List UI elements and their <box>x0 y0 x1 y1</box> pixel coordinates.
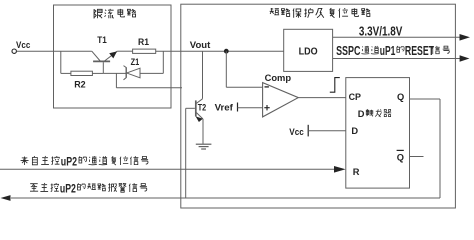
ground symbol (T2 emitter) <box>196 144 212 149</box>
node: Vout junction dot <box>224 49 229 54</box>
svg-text:Q: Q <box>397 92 404 102</box>
wire: to R2 left <box>61 72 71 74</box>
label 至主控uP2的短路报警信号 <box>30 181 147 195</box>
svg-text:uP2: uP2 <box>61 154 77 168</box>
svg-text:SSPC: SSPC <box>336 44 360 58</box>
label: 短路保护及复位电路 title <box>270 8 370 18</box>
transistor T1 collector line with arrow <box>105 51 118 61</box>
label Z1 <box>131 57 140 68</box>
label 3.3V/1.8V <box>359 25 403 39</box>
svg-text:T2: T2 <box>198 102 207 113</box>
wire: Q output <box>410 98 441 100</box>
wire: T2 emitter to ground <box>202 119 204 144</box>
wire: Vout dot down <box>225 51 227 87</box>
terminal Vcc (open circle) <box>12 49 16 53</box>
wire: Q-bar stub <box>410 156 424 158</box>
op-amp comparator U1 (Comp) triangle <box>263 83 299 117</box>
wire: feedback vertical up to rail after R1 <box>162 51 164 73</box>
label Q-bar pin <box>397 150 404 162</box>
label Vref <box>215 103 234 114</box>
label 来自主控uP2的通道复位信号 <box>21 154 149 168</box>
wire: LDO reset output <box>333 58 462 60</box>
svg-text:Vcc: Vcc <box>289 127 304 138</box>
label CP pin <box>349 92 361 102</box>
svg-text:Z1: Z1 <box>131 57 140 68</box>
label Q pin <box>397 92 404 102</box>
label R pin <box>353 167 360 177</box>
svg-text:D: D <box>351 126 358 136</box>
svg-text:Vout: Vout <box>190 40 211 51</box>
wire: lower horizontal out of box (to protection box edge) <box>116 87 182 89</box>
svg-text:D: D <box>358 109 365 119</box>
label SSPC通道uP1的RESET信号 <box>336 44 449 58</box>
svg-text:Vcc: Vcc <box>16 40 30 51</box>
terminal tick: Vcc right <box>307 125 309 137</box>
svg-text:T1: T1 <box>97 35 107 46</box>
wire: alarm signal line (至主控uP2) <box>11 197 440 199</box>
zener Z1 cathode bar with hooks <box>124 66 127 80</box>
wire: T2 base down to alarm/Q line <box>185 108 187 198</box>
transistor T2 collector line <box>196 99 202 104</box>
label Vout <box>190 40 211 51</box>
svg-text:R1: R1 <box>138 37 150 48</box>
svg-text:Q: Q <box>397 152 404 162</box>
wire: Z1 anode to feedback vertical <box>140 72 163 74</box>
svg-text:R: R <box>353 167 360 177</box>
arrowhead: 3.3V/1.8V output <box>460 34 471 41</box>
wire: drop from Vcc rail to R2 <box>60 51 62 73</box>
label LDO <box>299 46 318 57</box>
arrowhead: reset output <box>460 55 470 61</box>
node: drop-down junction on base wire <box>115 73 117 87</box>
wire: T1 base node to Z1 cathode <box>103 72 126 74</box>
box: short-circuit protection & reset circuit (短路保护及复位电路) outline <box>181 4 456 208</box>
label Vcc (left) <box>16 40 30 51</box>
wire: T1 collector to R1 <box>117 50 132 52</box>
svg-text:CP: CP <box>349 92 361 102</box>
comparator + sign <box>264 105 269 110</box>
svg-text:Vref: Vref <box>215 103 234 114</box>
wire: Vcc to D pin <box>308 130 346 132</box>
transistor T1 bar (base bar) <box>93 60 110 62</box>
label Comp <box>265 73 292 84</box>
symbol: rising-edge (clock) waveform mark <box>330 78 340 93</box>
svg-text:R2: R2 <box>74 80 86 91</box>
resistor R1 body <box>133 49 156 53</box>
transistor T1 emitter line <box>92 51 100 61</box>
arrowhead: into R pin <box>334 166 346 173</box>
label D pin <box>351 126 358 136</box>
wire: to comparator - input <box>226 86 262 88</box>
resistor R2 body <box>71 71 93 75</box>
label: 限流电路 (current-limiting circuit) title <box>94 9 136 19</box>
D flip-flop U2 box <box>346 78 410 189</box>
transistor T1 base lead down <box>102 62 104 73</box>
box: current-limiting circuit (限流电路) outline <box>54 5 172 108</box>
label R1 <box>138 37 150 48</box>
transistor T2 bar (base bar) <box>195 100 197 116</box>
svg-text:uP2: uP2 <box>60 181 76 195</box>
wire: T2 base lead <box>186 107 195 109</box>
terminal tick: Vref <box>237 103 239 112</box>
wire: Vref to comparator + input <box>238 107 263 109</box>
wire: Q down <box>439 99 441 198</box>
svg-text:uP1: uP1 <box>380 44 396 58</box>
label Vcc (right) <box>289 127 304 138</box>
wire: comparator output to CP <box>298 97 346 99</box>
zener Z1 triangle (anode, pointing left) <box>127 68 140 78</box>
svg-text:RESET: RESET <box>405 44 434 58</box>
svg-text:Comp: Comp <box>265 73 292 84</box>
label T1 <box>97 35 107 46</box>
wire: channel reset signal line (来自主控uP2) <box>0 168 335 170</box>
wire: Vcc to T1 emitter <box>17 50 92 52</box>
comparator - sign <box>265 86 269 88</box>
wire: R1 right to LDO input (Vout rail) <box>156 50 284 52</box>
wire: LDO output 3.3V/1.8V <box>333 36 463 38</box>
wire: R2 right to T1 base node <box>92 72 103 74</box>
transistor T2 emitter line with arrow <box>196 113 203 122</box>
svg-text:3.3V/1.8V: 3.3V/1.8V <box>359 25 403 39</box>
label T2 <box>198 102 207 113</box>
regulator LDO box <box>284 29 333 71</box>
label R2 <box>74 80 86 91</box>
label D触发器 <box>358 109 391 119</box>
svg-text:LDO: LDO <box>299 46 318 57</box>
arrowhead: alarm to uP2 (left) <box>1 195 11 201</box>
wire: Vout rail down to T2 collector <box>202 51 204 99</box>
